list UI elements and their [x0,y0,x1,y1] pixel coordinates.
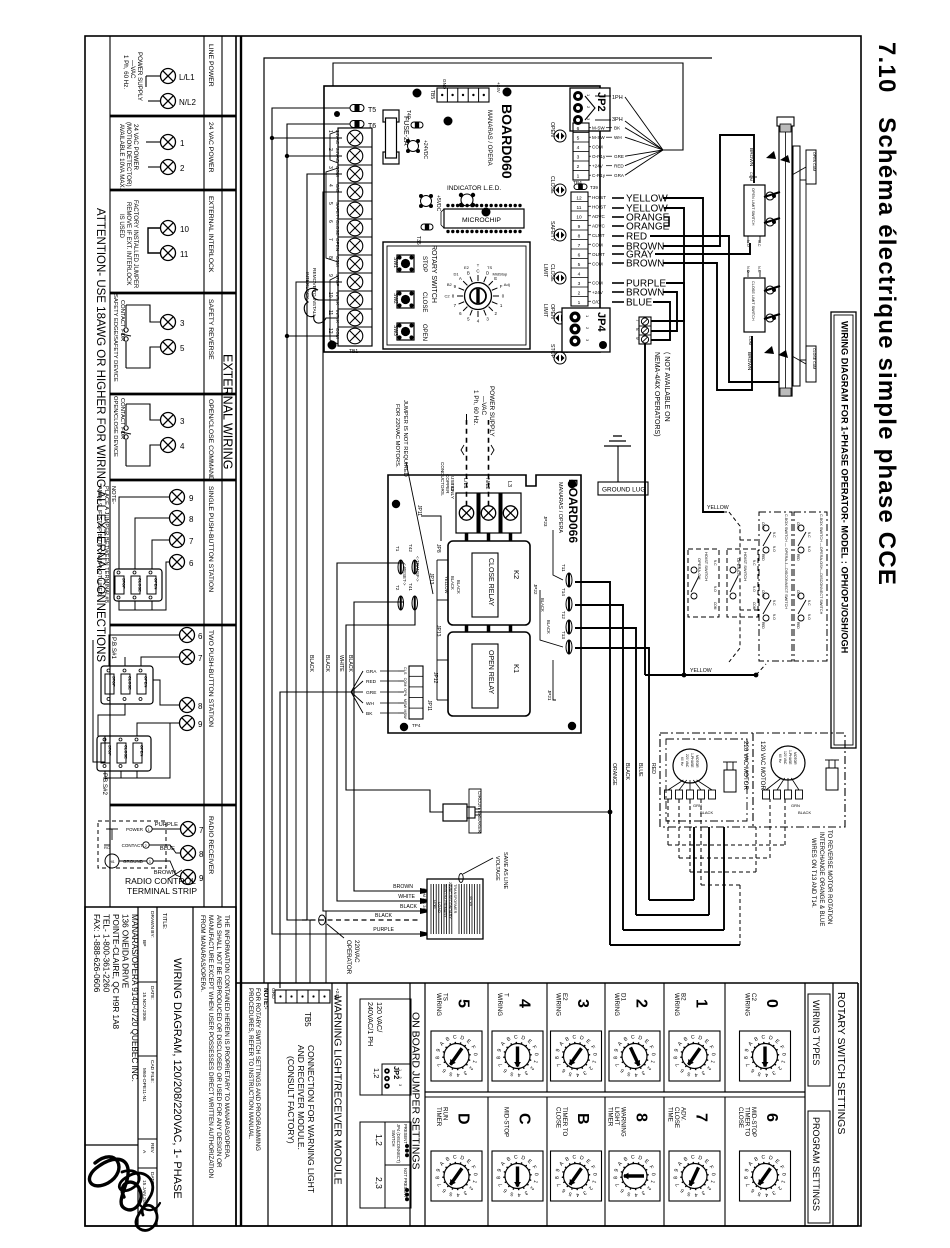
svg-text:0: 0 [763,999,780,1008]
svg-text:3: 3 [578,281,581,287]
breaker wire to motor bus [481,811,610,813]
t1 stub [272,137,342,139]
board dots [413,89,422,98]
svg-text:C.BOX SWITCH — OPERA-J—DISCONN: C.BOX SWITCH — OPERA-J—DISCONNECT SWITCH [784,514,788,609]
svg-text:1: 1 [693,999,710,1008]
24vac terminals 1 2 [161,135,176,150]
svg-text:NOTE-: NOTE- [110,486,116,504]
svg-text:SAFETY: SAFETY [549,221,555,242]
svg-text:BK: BK [614,126,621,131]
svg-text:BROWN: BROWN [746,352,752,371]
wire yellow hoist 11 [664,208,684,675]
svg-text:60 Hz: 60 Hz [680,757,684,766]
wire blue to pin9 [651,302,670,340]
svg-text:2: 2 [398,1077,402,1079]
svg-text:5: 5 [578,262,581,268]
svg-text:N.O: N.O [807,614,811,620]
svg-text:CLOSE: CLOSE [549,264,555,282]
oval marker [319,915,326,925]
svg-text:CONDUCTORS.: CONDUCTORS. [440,462,445,496]
svg-text:136 ONEIDA DRIVE: 136 ONEIDA DRIVE [121,914,130,989]
rotary switch settings strip [832,983,834,1226]
jp2 voltage table [360,999,411,1095]
svg-text:MID-STOP: MID-STOP [503,1107,510,1137]
svg-text:B: B [467,270,470,275]
svg-text:2: 2 [145,844,147,848]
svg-text:E2: E2 [464,265,470,270]
jumper T35 [421,224,433,230]
svg-text:9: 9 [198,720,203,729]
svg-text:OPEN/CLOSE COMMAND: OPEN/CLOSE COMMAND [207,399,214,481]
external wiring column frame [235,36,237,1226]
svg-text:T42: T42 [408,544,413,552]
motor M2 220vac [673,749,707,783]
svg-text:N.C: N.C [752,560,756,566]
svg-text:HOIST SWITCH: HOIST SWITCH [704,552,709,581]
svg-text:LOAD: LOAD [437,902,442,913]
svg-text:EXTERNAL INTERLOCK: EXTERNAL INTERLOCK [207,196,214,273]
svg-text:BLACK: BLACK [456,580,461,594]
svg-text:COM: COM [592,280,603,285]
svg-text:6: 6 [577,126,580,132]
svg-text:POWER SUPPLY: POWER SUPPLY [488,386,495,437]
svg-text:1: 1 [398,1069,402,1071]
svg-text:WIRING: WIRING [496,993,503,1016]
svg-text:K1: K1 [512,664,521,673]
svg-text:TO REVERSE MOTOR ROTATION: TO REVERSE MOTOR ROTATION [826,830,832,924]
svg-text:P.B.S#1: P.B.S#1 [110,637,117,659]
svg-text:N.C: N.C [757,240,761,247]
svg-text:6: 6 [327,220,333,223]
svg-text:FOR ROTARY SWITCH SETTINGS AND: FOR ROTARY SWITCH SETTINGS AND PROGRAMMI… [254,988,261,1151]
t2 stub [287,155,342,157]
svg-text:1-PHASE: 1-PHASE [788,750,792,765]
svg-text:1,2: 1,2 [372,1068,381,1078]
svg-text:1-PHASE: 1-PHASE [690,753,694,768]
svg-text:WIRING: WIRING [555,993,562,1016]
svg-text:GRN: GRN [791,803,800,808]
band frame [236,982,858,984]
svg-text:CLOSE RELAY: CLOSE RELAY [487,558,494,606]
svg-text:NEMA-4/4X OPERATORS): NEMA-4/4X OPERATORS) [653,352,660,437]
svg-text:COM: COM [748,336,752,345]
svg-text:WHITE: WHITE [398,894,415,900]
svg-text:6: 6 [189,559,194,568]
svg-text:TP4: TP4 [412,723,421,728]
svg-text:COM: COM [796,522,800,530]
svg-text:IS USED: IS USED [118,214,124,239]
svg-text:C: C [476,269,479,274]
svg-text:BLACK: BLACK [347,655,353,673]
svg-text:O-R1y: O-R1y [592,154,606,159]
svg-text:5: 5 [577,136,580,142]
svg-text:—VAC: —VAC [129,60,136,79]
svg-text:JP11: JP11 [426,700,432,711]
svg-text:CONTACT: CONTACT [122,843,144,848]
svg-text:WARNING LIGHT/RECEIVER MODULE: WARNING LIGHT/RECEIVER MODULE [332,996,344,1185]
svg-text:1 Ph, 60 Hz.: 1 Ph, 60 Hz. [472,390,479,425]
svg-text:5: 5 [180,344,185,353]
svg-text:8: 8 [198,702,203,711]
cbox switch opera-osh [794,512,827,661]
board U1 BOARD060 [324,86,600,352]
svg-text:3: 3 [149,860,151,864]
svg-text:STOP: STOP [112,676,117,687]
svg-text:7: 7 [693,1113,710,1122]
svg-text:3: 3 [398,1084,402,1086]
band verticals [307,920,310,983]
dashed supply lines [466,420,468,506]
svg-text:TS: TS [487,265,492,270]
svg-text:1: 1 [578,300,581,306]
svg-text:CLOSE: CLOSE [549,176,555,194]
svg-text:OPEN LIMIT SWITCH: OPEN LIMIT SWITCH [751,188,755,226]
svg-text:8: 8 [635,328,640,331]
svg-text:7: 7 [198,654,203,663]
svg-text:60 Hz: 60 Hz [778,754,782,763]
svg-text:T5: T5 [368,107,376,114]
svg-text:11: 11 [180,250,189,259]
svg-text:GROUND: GROUND [123,859,144,864]
TB5 header [437,88,489,102]
TB2 strip [571,192,588,306]
svg-text:TEL- 1-800-361-2260: TEL- 1-800-361-2260 [102,914,111,993]
wire yellow hoist 12 [663,198,724,512]
svg-text:WIRING DIAGRAM FOR 1-PHASE OPE: WIRING DIAGRAM FOR 1-PHASE OPERATOR- MOD… [840,321,850,654]
svg-text:+5VDC: +5VDC [435,195,441,212]
svg-text:TB1: TB1 [349,349,358,355]
svg-text:240VAC/1 PH: 240VAC/1 PH [366,1002,375,1046]
svg-text:INTLK: INTLK [335,310,340,324]
svg-text:MICROCHIP: MICROCHIP [462,217,501,224]
stop stub [296,282,342,983]
safety reverse terminals 3 5 contact [161,315,176,330]
svg-text:Adj: Adj [504,282,510,287]
svg-text:L/L1: L/L1 [179,73,195,82]
svg-text:OPERA-GH: OPERA-GH [697,558,702,579]
svg-text:9: 9 [578,224,581,230]
wire brown to open limit com [663,135,754,246]
svg-text:N.O: N.O [772,614,776,620]
svg-text:N.C: N.C [757,266,761,273]
fuse F1 FUSE-2A [383,110,399,122]
svg-text:RED: RED [761,622,765,629]
svg-text:N.O: N.O [772,546,776,552]
svg-text:6: 6 [578,252,581,258]
svg-text:M60-OPE11-N1: M60-OPE11-N1 [141,1068,147,1102]
svg-text:RED: RED [761,554,765,561]
svg-text:6: 6 [763,1113,780,1122]
svg-text:40 VA: 40 VA [469,896,473,907]
line power terminals L/L1 N/L2 [161,69,176,84]
svg-text:B: B [574,1113,591,1125]
svg-text:TRANSFORMER: TRANSFORMER [453,884,457,914]
svg-text:FOR 220VAC MOTORS.: FOR 220VAC MOTORS. [394,404,400,468]
hoist switch opera-h [727,549,758,617]
svg-text:CIRCUIT BREAKER: CIRCUIT BREAKER [477,791,482,833]
svg-text:C2: C2 [444,294,450,299]
svg-text:—VAC: —VAC [480,396,487,415]
svg-text:(CONSULT FACTORY): (CONSULT FACTORY) [286,1056,296,1144]
svg-text:O/C: O/C [592,299,601,304]
inner schematic border [264,58,712,983]
schematic area divider [240,36,242,1226]
svg-text:D1: D1 [454,272,460,277]
svg-text:JP21: JP21 [547,690,552,701]
dashed interconnects [729,512,740,662]
svg-text:T6: T6 [368,123,376,130]
svg-text:COM: COM [335,328,340,339]
svg-text:OPEN: OPEN [549,122,555,137]
svg-text:YELLOW: YELLOW [444,576,449,594]
bus wire purple [272,108,420,934]
ground symbol [613,435,622,437]
wire brown2 to close limit com [663,263,752,390]
jumper T6 [350,121,364,128]
circuit breaker CB1 [443,804,467,821]
svg-text:N.C: N.C [772,532,776,538]
svg-text:120 VAC/: 120 VAC/ [375,1002,384,1032]
svg-text:7: 7 [635,319,640,322]
svg-text:24 VAC POWER: 24 VAC POWER [207,122,214,173]
title block [85,907,236,1226]
svg-text:+24V: +24V [496,82,501,94]
svg-text:INTLK: INTLK [335,292,340,306]
svg-text:CLOSE: CLOSE [128,676,133,690]
svg-text:REV: REV [149,1143,155,1154]
svg-text:GRA: GRA [614,173,625,178]
wing nut close [764,346,788,358]
svg-text:COM: COM [749,172,753,181]
hoist switch opera-gh [688,549,719,617]
svg-text:COM: COM [713,602,717,610]
svg-text:SW3: SW3 [392,325,398,336]
jumper T40 [411,122,423,128]
bus wire t41 to breaker [346,610,443,812]
svg-text:C-R1y: C-R1y [592,173,606,178]
svg-text:STOP: STOP [549,344,555,359]
svg-text:AND SHALL NOT BE REPRODUCED OR: AND SHALL NOT BE REPRODUCED OR DISCLOSED… [215,915,222,1168]
jp4 table [360,1122,411,1208]
svg-text:OPEN: OPEN [549,304,555,319]
svg-text:MANARAS / OPERA: MANARAS / OPERA [557,482,563,533]
connector pins 7 8 9 [639,317,651,344]
svg-text:M-SW: M-SW [592,126,605,131]
svg-text:YELLOW: YELLOW [690,668,712,674]
svg-text:POWER: POWER [126,827,144,832]
TB3 power terminals L/L1 N/L2 L3 [456,493,521,533]
svg-text:220 VAC: 220 VAC [685,754,689,768]
svg-text:10: 10 [180,225,189,234]
wire yellow lower run [645,674,756,676]
svg-text:CLMT: CLMT [592,233,605,238]
svg-text:BLACK: BLACK [308,655,314,673]
svg-text:LINE POWER: LINE POWER [207,44,214,87]
svg-text:MOTOR: MOTOR [793,752,797,765]
motor M1 120vac [771,746,805,780]
svg-text:CLOSE: CLOSE [555,1107,562,1128]
two pb wires [109,635,179,666]
svg-text:(MOTION DETECTOR): (MOTION DETECTOR) [125,122,132,187]
two pb terminals 6 7 8 9 [180,628,195,643]
svg-text:+24VDC: +24VDC [422,140,428,159]
svg-text:RED: RED [366,679,377,685]
svg-text:8: 8 [633,1113,650,1122]
svg-text:3PH: 3PH [612,117,623,123]
svg-text:MSW: MSW [403,699,407,709]
svg-text:AND RECEIVER MODULE.: AND RECEIVER MODULE. [296,1045,306,1150]
svg-text:BLACK: BLACK [700,810,713,815]
svg-text:T14: T14 [561,588,566,596]
JP4 block [562,308,610,352]
svg-text:GRE: GRE [366,690,376,696]
svg-text:C.BOX SWITCH —OPERA-OSH—DISCON: C.BOX SWITCH —OPERA-OSH—DISCONNECT SWITC… [819,514,823,615]
svg-text:RADIO CONTROL: RADIO CONTROL [125,876,196,886]
interlock loop remove to install [304,288,338,323]
svg-text:ADVC: ADVC [592,214,605,219]
svg-text:4: 4 [578,271,581,277]
interlock terminals 10 11 with jumper [161,221,176,236]
svg-text:SW1: SW1 [392,257,398,268]
svg-text:15.NOV.2006: 15.NOV.2006 [141,992,147,1021]
svg-text:SAFETY REVERSE: SAFETY REVERSE [207,299,214,360]
svg-text:RED: RED [796,554,800,561]
svg-text:COM: COM [592,261,603,266]
svg-text:FAX: 1-888-626-0606: FAX: 1-888-626-0606 [92,914,101,993]
svg-text:MSW: MSW [403,709,407,719]
svg-text:HOIST: HOIST [592,195,606,200]
svg-text:CLOSE: CLOSE [124,745,129,759]
pb station #2 [97,736,151,771]
bus wire white [337,563,420,901]
svg-text:CLOSE: CLOSE [421,292,427,312]
svg-text:24VAC SECONDARY: 24VAC SECONDARY [448,882,452,919]
svg-text:GRE: GRE [614,154,624,159]
bus wire black2 [323,192,420,911]
svg-text:COM: COM [592,145,603,150]
svg-text:M-SW: M-SW [592,135,605,140]
TB4 fan wires [625,128,663,150]
svg-text:MOTOR: MOTOR [695,755,699,768]
svg-text:2: 2 [577,164,580,170]
svg-text:N/L2: N/L2 [179,98,196,107]
svg-text:MANARAS/OPERA 9140-0720 QUEBE: MANARAS/OPERA 9140-0720 QUEBEC INC. [130,914,139,1082]
svg-text:1: 1 [180,139,185,148]
motor M1 capacitor [826,768,838,790]
board U3 BOARD066 [388,475,581,733]
svg-text:BLUE: BLUE [626,298,652,309]
svg-text:WHITE: WHITE [338,655,344,672]
svg-text:WIRING: WIRING [673,993,680,1016]
svg-text:OPN: OPN [403,688,407,696]
svg-text:SINGLE PUSH-BUTTON STATION: SINGLE PUSH-BUTTON STATION [207,486,214,592]
wire red to close limit [650,236,788,382]
svg-text:ADVC: ADVC [592,223,605,228]
bus wire t2 brown [354,602,420,891]
+24VDC led [408,141,419,152]
bus wire black1 [307,174,342,920]
svg-text:NOTE:-: NOTE:- [262,988,269,1009]
svg-text:OPEN: OPEN [154,578,159,589]
svg-text:MANUFACTURE EXCEPT WHEN USER P: MANUFACTURE EXCEPT WHEN USER POSSESSES D… [207,915,214,1179]
svg-text:PROCEDURES, REFER TO INSTRUCTI: PROCEDURES, REFER TO INSTRUCTION MANUAL. [247,988,254,1140]
svg-text:7: 7 [327,238,333,241]
motor wires solid verticals [575,582,610,945]
svg-text:24VAC: 24VAC [335,148,340,163]
svg-text:5: 5 [455,999,472,1008]
ground lug box [598,482,648,495]
svg-text:OPEN RELAY: OPEN RELAY [487,650,494,695]
svg-text:OPEN/CLOSE DEVICE: OPEN/CLOSE DEVICE [112,396,118,457]
TB1 terminal strip [338,128,372,346]
svg-text:50/60 Hz PRIMARY: 50/60 Hz PRIMARY [443,884,447,918]
svg-text:T40: T40 [405,110,411,119]
svg-text:( NOT AVAILABLE ON: ( NOT AVAILABLE ON [663,352,670,422]
svg-text:N.C: N.C [772,600,776,606]
svg-text:BROWN: BROWN [393,884,413,890]
svg-text:AVAILABLE 10VA MAX.: AVAILABLE 10VA MAX. [118,124,125,190]
microchip U2 [444,209,524,228]
single pb terminals 9 8 7 6 [170,490,185,505]
svg-text:HOIST: HOIST [592,204,606,209]
svg-text:HOIST SWITCH: HOIST SWITCH [743,552,748,581]
svg-text:7: 7 [189,537,194,546]
svg-text:SAFETY: SAFETY [335,202,340,220]
svg-text:7.10 Schéma électrique simpl: 7.10 Schéma électrique simple phase CCE [873,42,900,586]
svg-text:JP22: JP22 [533,584,538,595]
svg-text:TIMER: TIMER [607,1107,614,1127]
svg-text:JP23: JP23 [543,516,548,527]
wire from pins down [644,344,646,675]
svg-text:THE INFORMATION CONTAINED HERE: THE INFORMATION CONTAINED HEREIN IS PROP… [223,915,230,1160]
svg-text:OPEN: OPEN [144,676,149,687]
svg-text:9: 9 [189,494,194,503]
svg-text:T13: T13 [561,631,566,639]
svg-text:RED: RED [796,622,800,629]
TP4 connector [409,666,423,719]
rotary switch box [383,242,530,349]
svg-text:24 VAC POWER: 24 VAC POWER [132,124,139,170]
svg-text:DRAWN BY:: DRAWN BY: [149,911,155,938]
svg-text:RC: RC [104,845,110,850]
svg-text:REMOVE TO INSTALL: REMOVE TO INSTALL [311,268,317,317]
svg-text:+24V: +24V [592,290,604,295]
svg-text:EXTERNAL WIRING: EXTERNAL WIRING [221,354,235,470]
svg-text:ROTARY SWITCH: ROTARY SWITCH [430,245,437,303]
svg-text:REMOVE IF EXT. INTERLOCK: REMOVE IF EXT. INTERLOCK [125,202,131,285]
svg-text:SW2: SW2 [392,293,398,304]
transf reset jumpers [398,560,404,574]
warning light module strip [331,983,333,1226]
svg-text:INTERLOCK.: INTERLOCK. [304,272,310,301]
svg-text:CLOSE: CLOSE [138,578,143,592]
svg-text:GRA: GRA [366,669,377,675]
sheet border [85,36,861,1226]
svg-text:RED: RED [614,164,624,169]
svg-text:8: 8 [189,515,194,524]
svg-text:JP2: JP2 [595,92,607,112]
svg-text:WH: WH [614,135,622,140]
svg-text:SAME AS LINE: SAME AS LINE [502,852,508,890]
svg-text:WIRING: WIRING [744,993,751,1016]
motor M2 terminals [665,790,672,799]
svg-text:N.C: N.C [807,600,811,606]
svg-text:COM: COM [592,242,603,247]
svg-text:SWITCH: SWITCH [391,1130,396,1147]
svg-text:TIMER: TIMER [435,1107,442,1127]
wiring diagram title box [831,312,856,748]
svg-text:RADIO RECEIVER: RADIO RECEIVER [207,816,214,874]
